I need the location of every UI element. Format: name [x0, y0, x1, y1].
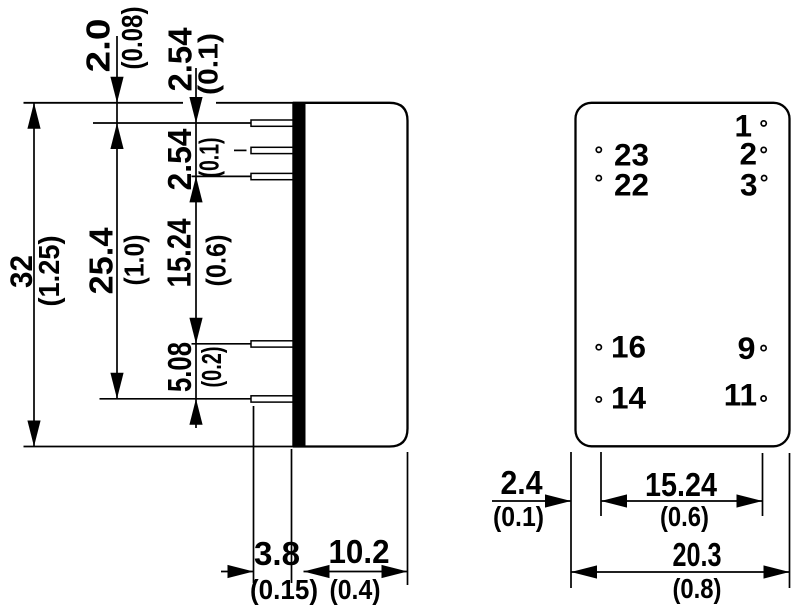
label 32 — [3, 255, 39, 288]
top reference line (left segment) — [24, 102, 184, 104]
label (0.6) bottom — [660, 501, 709, 532]
svg-text:14: 14 — [611, 379, 647, 415]
left view: package body outline — [293, 103, 408, 447]
left view: pin 3 (side) — [251, 173, 294, 179]
label 15.24 bottom — [645, 466, 718, 503]
pin number 23 — [614, 137, 649, 173]
label 2.4 — [501, 464, 544, 501]
right view extension line C (pin column right) — [762, 453, 764, 516]
svg-text:15.24: 15.24 — [161, 218, 198, 288]
right view pin dot 16 — [596, 345, 601, 350]
left view: pin 5 (side) — [251, 396, 294, 402]
right view pin dot 14 — [596, 397, 601, 402]
svg-text:16: 16 — [611, 328, 646, 364]
dimension 2.0 / 25.4: vertical line with arrows — [110, 36, 123, 399]
dimension 20.3 line and arrows — [571, 565, 790, 578]
svg-text:2.4: 2.4 — [501, 464, 544, 501]
right view pin dot 22 — [596, 176, 601, 181]
right view extension line B (pin column left) — [600, 452, 602, 516]
label (0.2) — [196, 347, 227, 388]
svg-text:(0.08): (0.08) — [117, 7, 149, 70]
label 2.0 — [80, 19, 117, 73]
bottom reference line — [24, 446, 294, 448]
right view pin dot 1 — [761, 121, 766, 126]
left view: mounting face bar — [292, 102, 305, 447]
svg-text:11: 11 — [724, 377, 757, 413]
label 25.4 — [83, 227, 120, 295]
label (0.8) — [673, 573, 722, 604]
pin number 2 — [739, 135, 757, 171]
svg-text:(0.4): (0.4) — [330, 574, 381, 605]
pin row 2 center dash — [234, 149, 247, 151]
pin number 1 — [734, 108, 752, 144]
svg-text:(0.1): (0.1) — [193, 33, 224, 95]
right view pin dot 11 — [761, 396, 766, 401]
label 2.54 (second) — [161, 128, 198, 191]
svg-text:(0.6): (0.6) — [660, 501, 709, 532]
pin row 1 extension line — [93, 122, 251, 124]
dimension 15.24 line and arrows — [601, 494, 763, 507]
top reference line (right segment to body) — [216, 102, 293, 104]
dimension 3.8 arrow — [221, 565, 254, 578]
dimension 2.54/15.24/5.08: vertical line with arrows — [189, 68, 202, 428]
svg-text:(1.25): (1.25) — [34, 236, 66, 307]
pin row 4 extension line — [192, 343, 252, 345]
dimension 32 (1.25): vertical line with arrows — [27, 103, 40, 447]
left view: pin 4 (side) — [251, 341, 294, 347]
svg-text:25.4: 25.4 — [83, 227, 120, 295]
label (0.4) — [330, 574, 381, 605]
pin number 14 — [611, 379, 647, 415]
right view extension line D (body right) — [789, 453, 791, 588]
svg-text:(0.1): (0.1) — [493, 501, 544, 532]
pin row 3 extension line — [192, 175, 252, 177]
right view pin dot 23 — [596, 147, 601, 152]
svg-text:5.08: 5.08 — [161, 342, 198, 392]
svg-text:(0.1): (0.1) — [194, 138, 225, 178]
label (0.15) — [250, 574, 318, 605]
svg-text:(0.15): (0.15) — [250, 574, 318, 605]
label 2.54 (top) — [162, 27, 199, 92]
label 10.2 — [329, 533, 390, 570]
svg-text:20.3: 20.3 — [673, 536, 722, 573]
label 3.8 — [254, 535, 300, 572]
svg-text:2.54: 2.54 — [161, 128, 198, 191]
svg-text:3.8: 3.8 — [254, 535, 300, 572]
svg-text:22: 22 — [614, 166, 649, 202]
pin number 3 — [740, 166, 758, 202]
svg-text:(1.0): (1.0) — [119, 235, 150, 286]
label (0.1) bottom — [493, 501, 544, 532]
svg-text:(0.6): (0.6) — [200, 235, 231, 287]
svg-text:9: 9 — [738, 330, 756, 366]
dimension 2.4 arrow — [492, 494, 571, 507]
pin number 22 — [614, 166, 649, 202]
dimension 10.2 line and arrows — [304, 565, 408, 578]
svg-text:15.24: 15.24 — [645, 466, 718, 503]
svg-text:2.0: 2.0 — [80, 19, 117, 73]
pin number 9 — [738, 330, 756, 366]
label (1.25) — [34, 236, 66, 307]
label (0.1) (top) — [193, 33, 224, 95]
label (0.08) — [117, 7, 149, 70]
right view pin dot 2 — [761, 147, 766, 152]
right view pin dot 3 — [762, 176, 767, 181]
pin number 16 — [611, 328, 646, 364]
bottom-left extension line (pin tip) — [253, 406, 255, 583]
svg-text:3: 3 — [740, 166, 758, 202]
right view: package body — [576, 103, 790, 447]
label 5.08 — [161, 342, 198, 392]
bottom-left extension line (body face) — [291, 449, 293, 583]
label (0.6) — [200, 235, 231, 287]
svg-text:(0.2): (0.2) — [196, 347, 227, 388]
label (1.0) — [119, 235, 150, 286]
label 20.3 — [673, 536, 722, 573]
pin number 11 — [724, 377, 757, 413]
label (0.1) (second) — [194, 138, 225, 178]
right view pin dot 9 — [761, 346, 766, 351]
bottom-left extension line (body back) — [407, 452, 409, 585]
left view: pin 1 (side) — [251, 120, 294, 126]
svg-text:(0.8): (0.8) — [673, 573, 722, 604]
label 15.24 — [161, 218, 198, 288]
right view extension line A (body left) — [570, 452, 572, 588]
svg-text:10.2: 10.2 — [329, 533, 390, 570]
pin row 5 extension line — [100, 398, 252, 400]
left view: pin 2 (side) — [251, 147, 294, 153]
